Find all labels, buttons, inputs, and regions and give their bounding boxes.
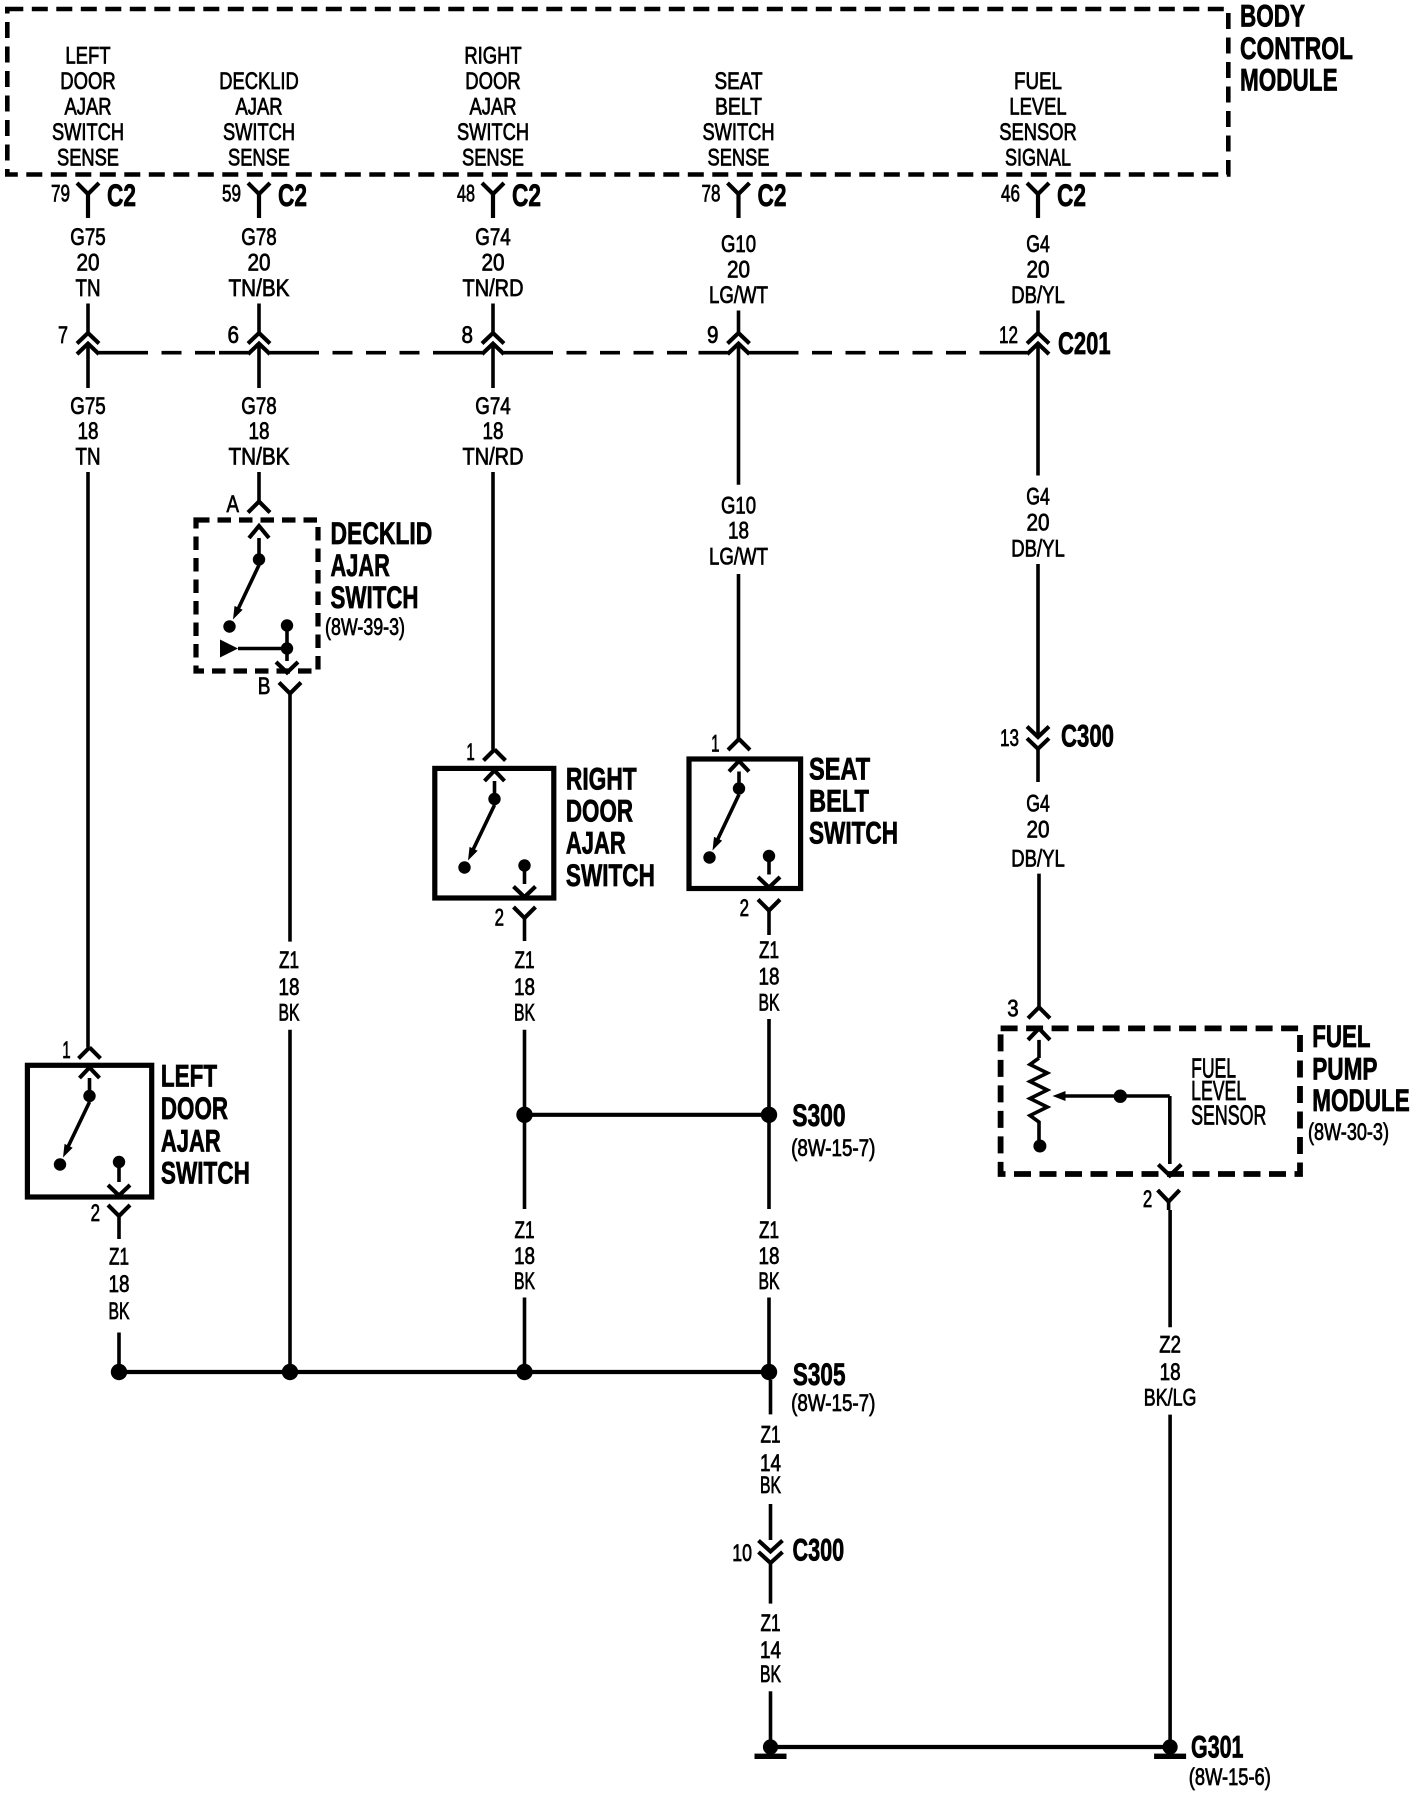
svg-text:B: B: [258, 673, 271, 700]
wire col3 to S300: [523, 1030, 527, 1115]
connector C2 pin 48 (BCM, fork symbol + stem): [457, 177, 541, 218]
node left door switch lower contact: [54, 1158, 66, 1170]
connector pin B (decklid ajar switch, fork): [258, 673, 301, 700]
svg-text:DB/YL: DB/YL: [1011, 536, 1065, 563]
svg-text:(8W-15-7): (8W-15-7): [791, 1135, 875, 1162]
wire col4 to S305: [767, 1298, 771, 1373]
svg-text:Z2: Z2: [1159, 1332, 1181, 1359]
svg-text:Z1: Z1: [109, 1244, 129, 1271]
svg-text:1: 1: [711, 731, 719, 758]
svg-text:LEVEL: LEVEL: [1009, 93, 1066, 120]
svg-text:2: 2: [740, 895, 749, 922]
svg-text:12: 12: [999, 322, 1018, 349]
svg-text:1: 1: [466, 739, 474, 766]
svg-text:BK: BK: [760, 1472, 781, 1499]
wire (20 ga) from label to C201: [737, 311, 741, 334]
wire col3 S300 to label: [523, 1115, 527, 1209]
wire col5 below C300: [1036, 749, 1040, 782]
label wire G4 20 DB/YL (col 5): [1011, 231, 1065, 309]
svg-text:G74: G74: [475, 224, 511, 251]
wire col3 to S305: [523, 1298, 527, 1373]
svg-text:79: 79: [51, 181, 70, 208]
connector C201 pin 7 (double chevron): [58, 322, 99, 354]
svg-text:SENSE: SENSE: [708, 144, 770, 171]
svg-text:AJAR: AJAR: [566, 824, 626, 860]
svg-text:BELT: BELT: [809, 783, 869, 819]
wire col4 below C201: [737, 344, 741, 485]
connector C300 pin 13 (double chevron down): [1000, 718, 1114, 754]
svg-text:AJAR: AJAR: [331, 547, 390, 583]
svg-text:BK: BK: [279, 1000, 300, 1027]
node left door switch common contact: [83, 1090, 95, 1102]
svg-text:MODULE: MODULE: [1312, 1082, 1410, 1118]
svg-text:BELT: BELT: [715, 93, 762, 120]
svg-text:20: 20: [482, 250, 505, 277]
label wire G74 18 TN/RD (col 3): [463, 393, 524, 471]
wire C201 connector dashed line: [99, 351, 1027, 355]
connector C201 pin 6 (double chevron): [228, 322, 271, 354]
connector C201 pin 12 (double chevron): [999, 322, 1049, 354]
svg-text:18: 18: [279, 974, 300, 1001]
splice S300 (wire junction): [516, 1097, 875, 1162]
label wire Z1 18 BK (col 4, upper): [759, 937, 780, 1017]
svg-text:SWITCH: SWITCH: [223, 119, 295, 146]
wire col3 long run to right door switch: [491, 472, 495, 750]
node decklid switch output junction: [281, 626, 293, 655]
svg-text:(8W-15-7): (8W-15-7): [791, 1390, 875, 1417]
svg-text:Z1: Z1: [515, 1217, 535, 1244]
ground G301 right terminal (dot and bar): [1154, 1739, 1186, 1759]
svg-text:13: 13: [1000, 725, 1019, 752]
svg-text:2: 2: [1143, 1186, 1152, 1213]
svg-text:SWITCH: SWITCH: [331, 579, 419, 615]
label LEFT DOOR AJAR SWITCH: [161, 1058, 250, 1191]
connector pin 2 (seat belt switch, fork): [740, 895, 780, 935]
svg-text:18: 18: [249, 418, 270, 445]
svg-text:G301: G301: [1191, 1729, 1244, 1765]
connector pin 1 component half (chevron): [80, 1068, 100, 1079]
label wire G10 18 LG/WT (col 4): [709, 493, 768, 571]
module fuel pump module dashed box: [1001, 1028, 1300, 1174]
node seat belt switch common contact: [733, 782, 745, 794]
label FUEL LEVEL SENSOR SIGNAL (BCM pin function, col 5): [999, 68, 1077, 172]
node seat belt switch output contact: [763, 850, 775, 875]
connector pin 2 (right door ajar switch, fork): [495, 904, 536, 941]
svg-text:10: 10: [732, 1540, 752, 1567]
connector C2 pin 59 (BCM, fork symbol + stem): [222, 177, 307, 218]
svg-text:S300: S300: [792, 1097, 845, 1133]
node fuel level sensor lower end: [1033, 1140, 1046, 1153]
svg-text:G78: G78: [241, 224, 277, 251]
wire col4 to C300: [769, 1504, 773, 1540]
svg-text:SWITCH: SWITCH: [566, 857, 655, 893]
label wire Z1 18 BK (col 1): [109, 1244, 130, 1326]
svg-text:(8W-30-3): (8W-30-3): [1308, 1119, 1389, 1146]
wire col1 long run to left door switch: [86, 472, 90, 1047]
connector pin 1 (left door ajar switch, fork): [62, 1037, 100, 1064]
switch arm (right door, with arrow): [468, 805, 495, 861]
svg-text:RIGHT: RIGHT: [566, 761, 637, 797]
label DECKLID AJAR SWITCH SENSE (BCM pin function, col 2): [219, 68, 299, 172]
node right door switch output contact: [518, 859, 530, 884]
connector pin 1 component half (chevron): [729, 761, 749, 772]
svg-text:BK: BK: [109, 1298, 130, 1325]
svg-text:LEFT: LEFT: [65, 42, 110, 69]
svg-text:20: 20: [1027, 816, 1050, 843]
svg-text:G75: G75: [70, 393, 106, 420]
label BODY CONTROL MODULE: [1240, 0, 1353, 97]
svg-text:BK: BK: [759, 1268, 780, 1295]
svg-text:18: 18: [109, 1271, 130, 1298]
svg-text:18: 18: [1160, 1359, 1181, 1386]
svg-text:SENSE: SENSE: [228, 144, 290, 171]
label G301 (8W-15-6): [1189, 1729, 1271, 1792]
node right door switch lower contact: [458, 861, 470, 873]
svg-text:G74: G74: [475, 393, 511, 420]
svg-text:C2: C2: [107, 177, 136, 213]
svg-text:SIGNAL: SIGNAL: [1005, 144, 1071, 171]
svg-text:G4: G4: [1026, 484, 1050, 511]
wire decklid output to pin B: [285, 649, 289, 662]
wire (20 ga) from label to C201: [491, 304, 495, 334]
svg-text:G75: G75: [70, 224, 106, 251]
svg-text:G10: G10: [721, 493, 756, 520]
svg-text:(8W-39-3): (8W-39-3): [325, 614, 405, 641]
svg-text:18: 18: [514, 1243, 535, 1270]
svg-text:20: 20: [77, 250, 100, 277]
connector C2 pin 46 (BCM, fork symbol + stem): [1001, 177, 1086, 218]
label RIGHT DOOR AJAR SWITCH SENSE (BCM pin function, col 3): [457, 42, 529, 171]
svg-text:AJAR: AJAR: [236, 93, 283, 120]
svg-text:SWITCH: SWITCH: [809, 815, 898, 851]
svg-text:SEAT: SEAT: [715, 68, 763, 95]
wire (20 ga) from label to C201: [1036, 311, 1040, 334]
svg-text:TN/BK: TN/BK: [229, 444, 290, 471]
svg-text:6: 6: [228, 322, 240, 349]
wire (20 ga) from label to C201: [86, 304, 90, 334]
wire ground bus G301: [771, 1745, 1171, 1749]
wire decklid switch pin A to contact: [257, 538, 261, 554]
wire (20 ga) from label to C201: [257, 304, 261, 334]
node decklid switch lower contact: [223, 620, 235, 632]
label FUEL PUMP MODULE (8W-30-3): [1308, 1018, 1410, 1146]
svg-text:2: 2: [91, 1200, 100, 1227]
svg-text:BK: BK: [514, 1000, 535, 1027]
svg-text:G10: G10: [721, 231, 756, 258]
svg-text:8: 8: [462, 322, 474, 349]
switch right door ajar switch box: [435, 768, 554, 898]
svg-text:20: 20: [1027, 510, 1050, 537]
wire (18 ga) below C201: [86, 344, 90, 388]
label wire G74 20 TN/RD (col 3): [463, 224, 524, 302]
connector C2 pin 79 (BCM, fork symbol + stem): [51, 177, 136, 218]
node decklid switch output contact: [281, 619, 293, 631]
connector pin 2 (fuel pump module, fork): [1143, 1186, 1180, 1213]
label wire Z1 18 BK (col 3, lower): [514, 1217, 535, 1295]
label wire G75 20 TN (col 1): [70, 224, 106, 302]
connector pin 2 component half (chevron down): [758, 877, 780, 888]
wire col1 to S305: [117, 1333, 121, 1373]
label wire Z1 18 BK (col 4, lower): [759, 1217, 780, 1295]
connector pin 2 component half (chevron down): [514, 887, 536, 898]
svg-text:FUEL: FUEL: [1312, 1018, 1370, 1054]
svg-text:Z1: Z1: [761, 1422, 781, 1449]
wire col5 to ground G301: [1168, 1415, 1172, 1747]
wire (18 ga) below C201: [491, 344, 495, 388]
svg-text:BK/LG: BK/LG: [1144, 1384, 1197, 1411]
svg-text:DOOR: DOOR: [566, 792, 633, 828]
svg-text:DOOR: DOOR: [465, 68, 520, 95]
wire fuel pump pin 3 to sensor: [1037, 1040, 1041, 1058]
connector pin 1 (seat belt switch, fork): [711, 731, 750, 758]
svg-text:SWITCH: SWITCH: [703, 119, 775, 146]
wire col4 below C300: [769, 1563, 773, 1604]
connector pin 2 (left door ajar switch, fork): [91, 1200, 130, 1239]
svg-text:SENSOR: SENSOR: [999, 119, 1077, 146]
svg-text:Z1: Z1: [761, 1610, 781, 1637]
switch seat belt switch box: [689, 759, 801, 889]
switch decklid plunger (triangle) and contact bar: [220, 640, 287, 658]
label C201: [1058, 325, 1111, 361]
svg-text:18: 18: [759, 964, 780, 991]
connector pin 1 component half (chevron): [485, 771, 505, 782]
svg-text:48: 48: [457, 181, 475, 208]
svg-text:LEFT: LEFT: [161, 1058, 217, 1094]
connector C300 pin 10 (double chevron down): [732, 1532, 844, 1568]
svg-text:G4: G4: [1026, 790, 1050, 817]
switch arm (seat belt, with arrow): [713, 795, 740, 851]
svg-text:78: 78: [702, 181, 721, 208]
svg-text:Z1: Z1: [759, 1217, 779, 1244]
label wire G78 18 TN/BK (col 2): [229, 393, 290, 471]
node left door switch output contact: [113, 1156, 125, 1182]
module U1 BODY CONTROL MODULE dashed outline box: [7, 9, 1228, 175]
connector C201 pin 9 (double chevron): [707, 322, 750, 354]
wire col4 S300 to label: [767, 1115, 771, 1209]
ground G301 left terminal (dot and bar): [755, 1739, 787, 1759]
label wire Z2 18 BK/LG (col 5): [1144, 1332, 1197, 1412]
svg-text:14: 14: [760, 1637, 781, 1664]
wire col2 to decklid switch: [257, 472, 261, 502]
svg-text:SENSE: SENSE: [462, 144, 524, 171]
svg-text:3: 3: [1007, 995, 1018, 1022]
svg-text:BODY: BODY: [1240, 0, 1305, 34]
svg-text:18: 18: [759, 1243, 780, 1270]
svg-text:Z1: Z1: [515, 947, 535, 974]
svg-text:SWITCH: SWITCH: [457, 119, 529, 146]
svg-text:TN/BK: TN/BK: [229, 275, 290, 302]
svg-text:G78: G78: [241, 393, 277, 420]
svg-text:46: 46: [1001, 181, 1020, 208]
connector C201 pin 8 (double chevron): [462, 322, 505, 354]
connector pin 1 (right door ajar switch, fork): [466, 739, 505, 766]
connector pin A (decklid ajar switch, fork): [227, 491, 271, 518]
connector pin 2 component half (chevron down): [1158, 1165, 1181, 1176]
svg-text:20: 20: [248, 250, 271, 277]
wire fuel level sensor wiper (arrow) and output: [1053, 1091, 1170, 1164]
svg-text:20: 20: [727, 257, 750, 284]
svg-text:18: 18: [728, 518, 749, 545]
label wire Z1 14 BK (col 4, below C300): [760, 1610, 781, 1688]
svg-text:Z1: Z1: [279, 947, 299, 974]
wire col4 to ground G301: [769, 1691, 773, 1747]
connector pin A component half (chevron): [249, 526, 269, 538]
svg-text:9: 9: [707, 322, 719, 349]
svg-text:DB/YL: DB/YL: [1011, 282, 1065, 309]
node seat belt switch lower contact: [703, 851, 715, 863]
svg-text:AJAR: AJAR: [470, 93, 517, 120]
svg-text:1: 1: [62, 1037, 70, 1064]
svg-text:RIGHT: RIGHT: [464, 42, 522, 69]
svg-text:2: 2: [495, 904, 504, 931]
label wire Z1 18 BK (col 3, upper): [514, 947, 535, 1027]
label SEAT BELT SWITCH: [809, 751, 898, 851]
svg-text:DECKLID: DECKLID: [331, 515, 433, 551]
wire col4 below S305: [769, 1380, 773, 1414]
svg-text:SWITCH: SWITCH: [52, 119, 124, 146]
label wire G75 18 TN (col 1): [70, 393, 106, 471]
label DECKLID AJAR SWITCH (8W-39-3): [325, 515, 432, 641]
wire col4 to seat belt switch: [737, 574, 741, 739]
connector pin 3 component half (chevron): [1028, 1028, 1050, 1040]
svg-text:59: 59: [222, 181, 241, 208]
svg-text:MODULE: MODULE: [1240, 61, 1338, 97]
svg-text:18: 18: [483, 418, 504, 445]
wire left door pin 1 to contact: [88, 1078, 92, 1090]
svg-text:BK: BK: [759, 990, 780, 1017]
label LEFT DOOR AJAR SWITCH SENSE (BCM pin function, col 1): [52, 42, 124, 171]
svg-text:18: 18: [514, 974, 535, 1001]
svg-text:S305: S305: [793, 1356, 846, 1392]
svg-text:Z1: Z1: [759, 937, 779, 964]
svg-text:C300: C300: [793, 1532, 845, 1568]
wire decklid pin B down: [288, 694, 292, 942]
wire col5 to fuel pump module: [1037, 874, 1041, 1008]
svg-text:C300: C300: [1061, 718, 1114, 754]
svg-text:LG/WT: LG/WT: [709, 544, 768, 571]
connector C2 pin 78 (BCM, fork symbol + stem): [702, 177, 787, 218]
label SEAT BELT SWITCH SENSE (BCM pin function, col 4): [703, 68, 775, 172]
label wire Z1 14 BK (col 4, above C300): [760, 1422, 781, 1499]
wire col2 to S305: [288, 1030, 292, 1372]
wire col4 to S300: [767, 1019, 771, 1115]
wire (18 ga) below C201: [257, 344, 261, 388]
svg-text:BK: BK: [760, 1661, 781, 1688]
resistor fuel level sensor element (zigzag): [1030, 1058, 1047, 1140]
connector pin B component half (chevron down): [276, 662, 298, 673]
svg-text:20: 20: [1027, 257, 1050, 284]
svg-text:DOOR: DOOR: [60, 68, 115, 95]
svg-text:DB/YL: DB/YL: [1011, 845, 1065, 872]
label RIGHT DOOR AJAR SWITCH: [566, 761, 655, 894]
svg-text:TN/RD: TN/RD: [463, 275, 524, 302]
switch decklid ajar switch dashed box: [196, 520, 318, 671]
svg-text:C2: C2: [1057, 177, 1086, 213]
svg-text:SWITCH: SWITCH: [161, 1154, 250, 1190]
svg-text:7: 7: [58, 322, 68, 349]
svg-text:AJAR: AJAR: [65, 93, 112, 120]
svg-text:TN: TN: [76, 275, 101, 302]
switch arm (decklid, with arrow): [233, 565, 259, 620]
switch left door ajar switch box: [27, 1065, 151, 1197]
node junction on wiper output: [1114, 1090, 1127, 1103]
node decklid switch common contact: [253, 553, 265, 565]
svg-text:DOOR: DOOR: [161, 1090, 228, 1126]
svg-text:SEAT: SEAT: [809, 751, 870, 787]
label wire G4 20 DB/YL (col 5, mid): [1011, 484, 1065, 563]
connector pin 3 (fuel pump module, fork): [1007, 995, 1050, 1022]
svg-text:SENSE: SENSE: [57, 144, 119, 171]
switch arm (left door, with arrow): [63, 1102, 90, 1158]
label wire Z1 18 BK (col 2): [279, 947, 300, 1027]
svg-text:DECKLID: DECKLID: [219, 68, 299, 95]
label wire G78 20 TN/BK (col 2): [229, 224, 290, 302]
svg-text:18: 18: [78, 418, 99, 445]
label wire G4 20 DB/YL (col 5, lower): [1011, 790, 1065, 872]
svg-text:LG/WT: LG/WT: [709, 282, 768, 309]
wire col5 to C300: [1036, 564, 1040, 735]
svg-text:C2: C2: [278, 177, 307, 213]
svg-text:C2: C2: [512, 177, 541, 213]
connector pin 2 component half (chevron down): [108, 1185, 130, 1196]
wire right door pin 1 to contact: [493, 781, 497, 793]
node right door switch common contact: [488, 793, 500, 805]
label wire G10 20 LG/WT (col 4): [709, 231, 768, 309]
svg-text:A: A: [227, 491, 240, 518]
svg-text:TN: TN: [76, 444, 101, 471]
label FUEL LEVEL SENSOR: [1191, 1052, 1266, 1130]
wire seat belt pin 1 to contact: [737, 772, 741, 783]
svg-text:TN/RD: TN/RD: [463, 444, 524, 471]
svg-text:SENSOR: SENSOR: [1191, 1100, 1266, 1131]
wire col5 pin2 down: [1168, 1210, 1172, 1327]
splice S305 (wire junction): [111, 1356, 876, 1417]
svg-text:G4: G4: [1026, 231, 1050, 258]
svg-text:C201: C201: [1058, 325, 1111, 361]
svg-text:AJAR: AJAR: [161, 1122, 221, 1158]
svg-text:BK: BK: [514, 1268, 535, 1295]
svg-text:C2: C2: [758, 177, 787, 213]
svg-text:(8W-15-6): (8W-15-6): [1189, 1764, 1271, 1791]
svg-text:FUEL: FUEL: [1014, 68, 1062, 95]
wire col5 below C201: [1036, 344, 1040, 476]
